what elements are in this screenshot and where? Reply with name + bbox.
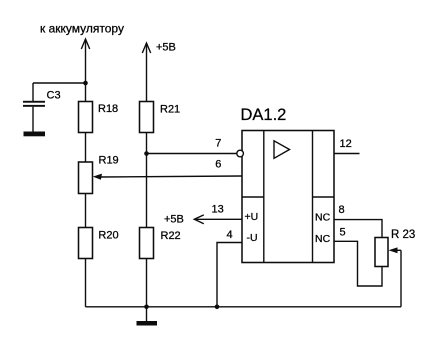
node junction dot (R21/pin7) xyxy=(144,151,149,156)
svg-text:C3: C3 xyxy=(47,90,61,102)
wire pin 4 to ground rail xyxy=(217,243,242,307)
pin 13 +5V arrow xyxy=(194,215,242,224)
wire junction to C3 xyxy=(33,82,86,84)
wire bottom rail xyxy=(86,306,402,308)
wire pin 12 stub xyxy=(334,153,360,155)
svg-text:NC: NC xyxy=(315,211,331,223)
R23 wiper arrow and wire to bottom rail xyxy=(389,247,402,306)
svg-text:8: 8 xyxy=(339,204,345,216)
svg-text:R20: R20 xyxy=(98,230,118,242)
node junction dot (pin4/rail) xyxy=(215,305,220,310)
node junction dot (ground) xyxy=(144,305,149,310)
pin 7 inversion bubble xyxy=(237,150,244,157)
svg-text:13: 13 xyxy=(212,204,224,216)
resistor R21 xyxy=(140,102,154,133)
resistor R22 xyxy=(140,228,154,259)
svg-text:DA1.2: DA1.2 xyxy=(241,106,287,124)
resistor R20 xyxy=(79,228,93,259)
wire R18 to R19 xyxy=(85,133,87,163)
wire to pin 7 xyxy=(147,153,238,155)
potentiometer R23 xyxy=(375,238,388,267)
svg-text:6: 6 xyxy=(215,159,221,171)
ground (below C3) xyxy=(24,132,46,137)
DA1.2 right column divider xyxy=(313,196,335,198)
DA1.2 left column divider xyxy=(242,196,264,198)
wire R20 to bottom rail xyxy=(85,259,87,307)
svg-text:+5В: +5В xyxy=(164,213,184,225)
ground (main) xyxy=(137,307,158,326)
node A junction dot xyxy=(83,81,88,86)
wire pin 5 to R23 bottom xyxy=(334,241,382,286)
svg-text:R19: R19 xyxy=(99,155,119,167)
potentiometer R19 xyxy=(79,162,93,194)
+5V rail arrow xyxy=(142,43,150,102)
svg-text:-U: -U xyxy=(247,232,258,244)
svg-text:NC: NC xyxy=(315,233,331,245)
capacitor C3 xyxy=(23,83,45,132)
wire R21 to R22 xyxy=(146,133,148,228)
DA1.2 internal column line left xyxy=(263,131,265,263)
wire R19 to R20 xyxy=(85,194,87,228)
svg-text:5: 5 xyxy=(340,227,346,239)
resistor R18 xyxy=(79,102,93,133)
svg-text:+5В: +5В xyxy=(156,42,176,54)
op-amp U1 DA1.2 outline xyxy=(242,131,334,263)
DA1.2 internal column line right xyxy=(312,131,314,263)
svg-text:4: 4 xyxy=(227,229,233,241)
svg-text:R22: R22 xyxy=(161,230,181,242)
wire pin 8 to R23 top xyxy=(334,220,382,238)
svg-text:7: 7 xyxy=(215,138,221,150)
svg-text:R18: R18 xyxy=(98,103,118,115)
svg-text:R21: R21 xyxy=(160,103,180,115)
battery rail arrow xyxy=(81,39,89,102)
svg-text:+U: +U xyxy=(245,211,259,223)
svg-text:R 23: R 23 xyxy=(391,229,415,241)
svg-text:к аккумулятору: к аккумулятору xyxy=(40,22,124,36)
wire R22 to bottom rail xyxy=(146,259,148,307)
svg-text:12: 12 xyxy=(340,138,352,150)
wire R19 wiper to pin 6 xyxy=(93,174,242,180)
amplifier triangle symbol xyxy=(274,141,290,159)
